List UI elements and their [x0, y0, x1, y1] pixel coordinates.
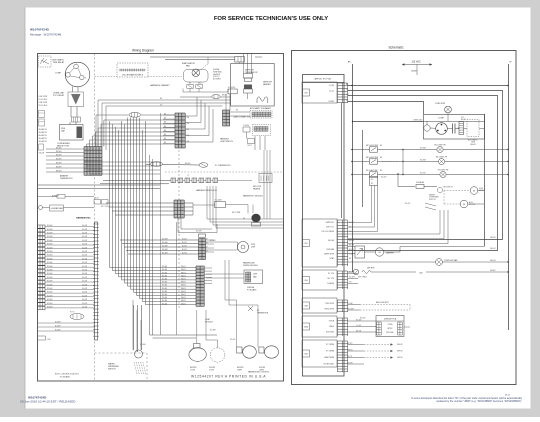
svg-text:RD-GN: RD-GN — [356, 319, 362, 321]
svg-text:DEF TERM: DEF TERM — [358, 277, 367, 279]
svg-text:2: 2 — [65, 73, 66, 75]
svg-text:RD-GR: RD-GR — [230, 339, 236, 341]
svg-text:GD-OR: GD-OR — [82, 284, 88, 286]
svg-text:RD-BU: RD-BU — [162, 297, 168, 299]
svg-text:BK-WH: BK-WH — [56, 151, 62, 153]
svg-text:PC BOARD: PC BOARD — [60, 375, 71, 378]
svg-text:BU-WH: BU-WH — [55, 330, 61, 332]
svg-text:Montage : W10767424B: Montage : W10767424B — [30, 32, 61, 36]
svg-text:RD-WH: RD-WH — [420, 159, 427, 161]
svg-text:LIGHT/SWITCH: LIGHT/SWITCH — [220, 141, 234, 143]
svg-text:J-2: J-2 — [187, 175, 189, 177]
svg-text:MC LTS: MC LTS — [328, 278, 335, 280]
svg-text:PC TERM: PC TERM — [326, 344, 335, 346]
svg-text:WH: WH — [187, 117, 190, 119]
svg-text:DEF HTR: DEF HTR — [367, 268, 375, 270]
svg-text:WH-YL: WH-YL — [181, 272, 186, 274]
svg-text:ICE CLK SENS: ICE CLK SENS — [322, 231, 335, 233]
svg-text:WH: WH — [187, 141, 190, 143]
svg-text:RD-WH: RD-WH — [140, 344, 146, 346]
svg-text:RD-WH: RD-WH — [47, 240, 52, 242]
svg-text:60HZ: 60HZ — [411, 71, 417, 73]
svg-text:RD-BU: RD-BU — [162, 279, 168, 281]
svg-text:RD-WH: RD-WH — [47, 258, 52, 260]
svg-text:EC-1(5W): EC-1(5W) — [228, 87, 236, 89]
svg-text:BK-GN: BK-GN — [356, 330, 362, 332]
svg-text:MC LIGHT SW: MC LIGHT SW — [366, 145, 378, 147]
svg-text:WH-YL: WH-YL — [181, 291, 186, 293]
svg-text:RD-GN: RD-GN — [360, 318, 366, 320]
svg-text:RD-WH: RD-WH — [420, 147, 427, 149]
svg-text:GD-OR: GD-OR — [82, 299, 88, 301]
svg-text:COND MTR: COND MTR — [435, 103, 446, 105]
svg-text:WH-YL: WH-YL — [181, 282, 186, 284]
svg-text:ELEC CONTROLS LAYOUT: ELEC CONTROLS LAYOUT — [55, 373, 80, 376]
svg-text:G-DISPATCHER: G-DISPATCHER — [51, 207, 64, 210]
svg-text:WH-BK RD: WH-BK RD — [39, 129, 48, 131]
svg-text:TRIG WTR: TRIG WTR — [325, 303, 335, 305]
svg-text:PTC RELAY: PTC RELAY — [53, 94, 65, 97]
svg-text:BK-WH: BK-WH — [56, 163, 62, 165]
svg-text:GD-OR: GD-OR — [82, 225, 88, 227]
svg-text:FAN MOTOR: FAN MOTOR — [57, 145, 69, 148]
svg-text:RD-BU: RD-BU — [162, 294, 168, 296]
svg-text:FC TERM: FC TERM — [326, 351, 334, 353]
svg-text:WH-YL: WH-YL — [181, 275, 186, 277]
svg-text:FUSE 8A: FUSE 8A — [416, 181, 424, 184]
svg-text:RELAY: RELAY — [470, 143, 476, 146]
svg-text:VTR A: VTR A — [329, 320, 335, 323]
svg-text:WH-GN: WH-GN — [490, 260, 496, 262]
svg-text:APPLIC FC PCB: APPLIC FC PCB — [314, 78, 331, 81]
svg-text:WH-GN: WH-GN — [490, 237, 496, 239]
svg-text:LT 5W: LT 5W — [190, 369, 195, 371]
svg-text:CN3: CN3 — [304, 354, 308, 356]
svg-text:COMP DISP FAN: COMP DISP FAN — [444, 259, 458, 262]
svg-text:AMB TERM: AMB TERM — [325, 356, 335, 359]
svg-text:RD-WH: RD-WH — [348, 308, 354, 310]
svg-text:DISPED MODULE: DISPED MODULE — [243, 265, 259, 267]
svg-text:THERMISTOR: THERMISTOR — [257, 312, 269, 314]
svg-text:DISPLAY PCB: DISPLAY PCB — [384, 318, 397, 321]
svg-text:BK-WH: BK-WH — [56, 167, 62, 169]
svg-text:RD-WH: RD-WH — [47, 247, 52, 249]
svg-text:DPC-1(2W): DPC-1(2W) — [101, 206, 110, 208]
svg-text:L2 (N): L2 (N) — [329, 85, 335, 87]
svg-text:GD-OR: GD-OR — [82, 281, 88, 283]
svg-text:RD-WH: RD-WH — [47, 284, 52, 286]
svg-text:PC BOARD: PC BOARD — [247, 288, 257, 291]
svg-text:HARNESS FC MODULE: HARNESS FC MODULE — [243, 195, 264, 198]
svg-text:MC LIGHT 7W: MC LIGHT 7W — [434, 144, 445, 146]
svg-text:COMP: COMP — [328, 101, 334, 103]
svg-text:BU-WH: BU-WH — [55, 326, 61, 328]
svg-text:CN7: CN7 — [304, 243, 308, 245]
svg-text:GD-OR: GD-OR — [82, 266, 88, 268]
svg-text:FZ LIGHT SW: FZ LIGHT SW — [366, 170, 378, 172]
svg-text:OVERLOAD: OVERLOAD — [413, 119, 423, 122]
svg-text:RD-WH: RD-WH — [47, 273, 52, 275]
svg-text:RD-BU: RD-BU — [162, 269, 168, 271]
svg-text:WH-GR: WH-GR — [347, 362, 353, 364]
svg-text:RD-WH: RD-WH — [349, 277, 355, 279]
svg-text:WH-BK RD: WH-BK RD — [39, 138, 48, 140]
svg-text:WH-YL: WH-YL — [181, 297, 186, 299]
svg-text:WH-OR: WH-OR — [490, 248, 496, 250]
svg-text:LINE PWR: LINE PWR — [39, 102, 48, 104]
svg-text:RD-WH: RD-WH — [47, 295, 52, 297]
svg-text:RD-BU: RD-BU — [162, 272, 168, 274]
svg-text:L1 (L): L1 (L) — [329, 91, 334, 93]
svg-text:DSP FAN: DSP FAN — [326, 248, 334, 251]
svg-text:BK(T7): BK(T7) — [347, 356, 353, 358]
svg-text:BU-WH: BU-WH — [55, 322, 61, 324]
svg-text:RD-BU: RD-BU — [162, 275, 168, 277]
svg-text:GD-GN: GD-GN — [39, 153, 45, 155]
svg-text:MC LIGHT 7W: MC LIGHT 7W — [436, 156, 447, 158]
svg-text:WH-YL: WH-YL — [181, 269, 186, 271]
svg-text:D-SENS: D-SENS — [327, 283, 335, 285]
svg-text:WH-YL: WH-YL — [181, 303, 186, 305]
svg-text:MC LIGHT SW: MC LIGHT SW — [366, 157, 378, 159]
svg-text:RD-WH: RD-WH — [162, 246, 168, 248]
svg-text:IC-3(2W): IC-3(2W) — [243, 125, 250, 127]
svg-text:BK-GN: BK-GN — [328, 240, 334, 242]
svg-text:BK: BK — [164, 138, 166, 140]
svg-text:115 VAC: 115 VAC — [411, 61, 420, 64]
svg-text:GD-OR: GD-OR — [82, 233, 88, 235]
svg-text:WH-YL: WH-YL — [181, 294, 186, 296]
svg-text:-SW: -SW — [47, 339, 51, 341]
svg-text:FC THERMISTOR: FC THERMISTOR — [215, 165, 231, 167]
svg-text:FOR SERVICE TECHNICIAN'S USE O: FOR SERVICE TECHNICIAN'S USE ONLY — [214, 16, 328, 22]
svg-text:RD-GN: RD-GN — [381, 177, 387, 179]
svg-text:WH-BK RD: WH-BK RD — [39, 132, 48, 134]
svg-text:GD-OR: GD-OR — [82, 292, 88, 294]
svg-text:MOTOR: MOTOR — [469, 204, 476, 206]
svg-text:replaced by the number "4848": replaced by the number "4848" (e.g. "W10… — [436, 400, 522, 403]
svg-text:HARNESS MC CONTROL: HARNESS MC CONTROL — [248, 371, 269, 374]
svg-text:STB GND: STB GND — [326, 332, 335, 334]
svg-text:WH-YL: WH-YL — [181, 279, 186, 281]
svg-text:WH: WH — [187, 123, 190, 125]
svg-text:GY: GY — [206, 239, 208, 241]
svg-text:WH-BK RD: WH-BK RD — [39, 141, 48, 143]
svg-text:W12544207 REV:A PRINTED IN: W12544207 REV:A PRINTED IN U.S.A — [191, 374, 266, 378]
svg-text:BK: BK — [164, 114, 166, 116]
svg-text:WH-BR: WH-BR — [490, 270, 496, 272]
svg-text:CN6: CN6 — [304, 280, 308, 282]
svg-text:3: 3 — [85, 78, 86, 80]
svg-text:BK: BK — [164, 122, 166, 124]
svg-text:GD-OR: GD-OR — [82, 295, 88, 297]
svg-text:BK-GN: BK-GN — [349, 240, 355, 242]
svg-text:DMPR HC: DMPR HC — [326, 222, 335, 224]
svg-text:BK: BK — [164, 118, 166, 120]
svg-text:RD-WH: RD-WH — [47, 236, 52, 238]
svg-text:BK: BK — [236, 110, 238, 112]
svg-text:TRIG2 WTR: TRIG2 WTR — [324, 309, 335, 311]
svg-text:RD-WH: RD-WH — [47, 299, 52, 301]
svg-text:HARNESS CABINET: HARNESS CABINET — [150, 84, 170, 87]
svg-text:HEATER: HEATER — [263, 83, 271, 86]
svg-text:BK-WH: BK-WH — [56, 159, 62, 161]
svg-text:RD-WH: RD-WH — [162, 253, 168, 255]
svg-text:BK: BK — [164, 134, 166, 136]
svg-text:DPC-1: DPC-1 — [248, 145, 253, 147]
svg-text:RD-BU: RD-BU — [162, 303, 168, 305]
svg-text:CN1: CN1 — [304, 93, 308, 95]
svg-text:RD-BU: RD-BU — [162, 285, 168, 287]
svg-text:BK: BK — [164, 142, 166, 144]
svg-text:WH-YL: WH-YL — [181, 266, 186, 268]
svg-text:FZ LT SW: FZ LT SW — [232, 212, 240, 214]
svg-text:M: M — [473, 191, 475, 193]
svg-text:HARNESS REF DOOR: HARNESS REF DOOR — [196, 189, 217, 192]
svg-text:RD-WH: RD-WH — [47, 266, 52, 268]
svg-text:BK: BK — [164, 130, 166, 132]
svg-text:FZ LIGHT 7W: FZ LIGHT 7W — [438, 169, 449, 171]
svg-text:RD-WH: RD-WH — [162, 249, 168, 251]
svg-text:MODULE: MODULE — [205, 321, 213, 323]
svg-text:WH-YL: WH-YL — [181, 288, 186, 290]
svg-text:WIDE: WIDE — [329, 326, 334, 328]
svg-text:RD-WH: RD-WH — [47, 292, 52, 294]
svg-text:Schematic: Schematic — [389, 46, 404, 50]
svg-text:BLOWER: BLOWER — [213, 79, 221, 81]
svg-text:TBL SWITCH: TBL SWITCH — [443, 187, 453, 189]
svg-text:RD-WH: RD-WH — [47, 262, 52, 264]
svg-text:PLUG BLK: PLUG BLK — [39, 99, 49, 101]
svg-text:HARNESS MC: HARNESS MC — [76, 217, 91, 220]
svg-text:AUTOMATIC ICE MAKER: AUTOMATIC ICE MAKER — [250, 107, 272, 110]
svg-text:RD-BU: RD-BU — [162, 291, 168, 293]
svg-text:WH/GR: WH/GR — [397, 351, 403, 353]
svg-text:RD-WH: RD-WH — [47, 270, 52, 272]
svg-text:GD-OR: GD-OR — [82, 270, 88, 272]
svg-text:MULLION WTR: MULLION WTR — [376, 302, 389, 304]
svg-text:CN8: CN8 — [304, 306, 308, 308]
svg-text:GD-OR: GD-OR — [82, 229, 88, 231]
svg-text:GD-OR: GD-OR — [82, 247, 88, 249]
svg-text:GD-OR: GD-OR — [82, 288, 88, 290]
svg-text:RD-WH: RD-WH — [47, 229, 52, 231]
svg-text:RD-BU: RD-BU — [162, 288, 168, 290]
svg-text:WH(T3): WH(T3) — [347, 349, 353, 351]
svg-text:STB GND: STB GND — [386, 332, 394, 334]
svg-text:BK-WH: BK-WH — [56, 148, 62, 150]
svg-text:20-Jun-2016 10:44:10 EDT / REL: 20-Jun-2016 10:44:10 EDT / RELEASED — [20, 400, 76, 404]
svg-text:WH-YL: WH-YL — [181, 285, 186, 287]
svg-text:RD-WH: RD-WH — [162, 242, 168, 244]
svg-text:WH/GR: WH/GR — [397, 357, 403, 359]
svg-text:W: W — [510, 62, 512, 64]
svg-text:VTR A: VTR A — [388, 323, 394, 326]
svg-text:GD-OR: GD-OR — [82, 255, 88, 257]
svg-text:GD-OR: GD-OR — [82, 303, 88, 305]
svg-text:BK-WH: BK-WH — [185, 163, 191, 165]
svg-text:WH/GR: WH/GR — [397, 344, 403, 346]
svg-text:RD-GR: RD-GR — [349, 272, 355, 274]
svg-text:GD-OR: GD-OR — [82, 277, 88, 279]
svg-text:WH: WH — [187, 135, 190, 137]
svg-text:BK: BK — [164, 126, 166, 128]
svg-text:M: M — [463, 204, 465, 206]
svg-text:GY: GY — [206, 243, 208, 245]
svg-text:BK(TR): BK(TR) — [347, 343, 353, 345]
svg-text:SWITCH: SWITCH — [429, 199, 436, 201]
svg-text:RD-WH: RD-WH — [196, 231, 202, 233]
svg-text:GD-OR: GD-OR — [82, 258, 88, 260]
svg-text:LINE PWR: LINE PWR — [39, 96, 48, 98]
svg-text:F1 F2: F1 F2 — [70, 312, 74, 314]
svg-text:Wiring Diagram: Wiring Diagram — [132, 49, 154, 53]
svg-text:COMP: COMP — [438, 118, 444, 120]
svg-text:ON CERTAIN MODELS: ON CERTAIN MODELS — [122, 73, 144, 76]
svg-text:WH-BK RD: WH-BK RD — [39, 135, 48, 137]
svg-text:TSCRN GND: TSCRN GND — [323, 364, 334, 366]
svg-text:RD-WH: RD-WH — [47, 288, 52, 290]
svg-text:GD-OR: GD-OR — [82, 273, 88, 275]
svg-text:BK-WH: BK-WH — [56, 155, 62, 157]
svg-text:RD-WH: RD-WH — [47, 225, 52, 227]
svg-text:WH: WH — [187, 129, 190, 131]
svg-text:GD-OR: GD-OR — [82, 262, 88, 264]
svg-text:M: M — [379, 252, 381, 254]
svg-text:GD-OR: GD-OR — [82, 251, 88, 253]
svg-text:GD-OR: GD-OR — [82, 307, 88, 309]
svg-text:COMP: COMP — [55, 73, 62, 75]
svg-text:RD-BU: RD-BU — [162, 266, 168, 268]
svg-text:1: 1 — [76, 63, 77, 65]
svg-text:TIME RELAY: TIME RELAY — [53, 61, 65, 64]
svg-text:RD-WH: RD-WH — [47, 307, 52, 309]
svg-text:TC-1(6W): TC-1(6W) — [215, 200, 222, 202]
svg-text:EVAPORATOR: EVAPORATOR — [182, 62, 195, 65]
svg-text:SWITCH: SWITCH — [108, 369, 116, 371]
svg-text:GY: GY — [206, 247, 208, 249]
svg-text:RD-WH: RD-WH — [47, 244, 52, 246]
svg-text:DIST OLY: DIST OLY — [326, 227, 335, 229]
svg-text:WH-YL: WH-YL — [181, 300, 186, 302]
svg-text:W10767424D: W10767424D — [30, 28, 50, 32]
svg-text:DMPR WTR: DMPR WTR — [324, 254, 335, 256]
svg-text:THERMISTOR: THERMISTOR — [60, 178, 73, 180]
svg-text:BK-WH: BK-WH — [56, 171, 62, 173]
svg-text:HEATER: HEATER — [253, 187, 261, 190]
svg-text:RD-WH: RD-WH — [47, 255, 52, 257]
svg-text:BK-RD: BK-RD — [222, 95, 228, 97]
svg-text:LIGHT: LIGHT — [237, 369, 242, 371]
svg-text:LT 5W: LT 5W — [209, 369, 214, 371]
svg-text:RD-GN: RD-GN — [420, 172, 426, 174]
svg-text:FAN: FAN — [186, 65, 190, 68]
svg-text:FC LTS: FC LTS — [328, 273, 335, 275]
svg-text:GD-OR: GD-OR — [82, 236, 88, 238]
svg-text:GD-OR: GD-OR — [82, 240, 88, 242]
svg-text:INTRC: INTRC — [387, 328, 393, 330]
svg-text:RD-WH: RD-WH — [210, 330, 216, 332]
svg-text:PLUG BLK: PLUG BLK — [39, 105, 49, 107]
svg-text:RD-WH: RD-WH — [47, 281, 52, 283]
svg-text:RD-WH: RD-WH — [162, 239, 168, 241]
svg-text:GY: GY — [206, 251, 208, 253]
svg-text:RD-BU: RD-BU — [162, 282, 168, 284]
svg-text:(BLK): (BLK) — [95, 198, 100, 200]
svg-text:RD-WH: RD-WH — [47, 277, 52, 279]
svg-text:(BU): (BU) — [198, 83, 202, 85]
svg-text:RD-WH: RD-WH — [47, 233, 52, 235]
svg-text:RD-OR: RD-OR — [405, 203, 411, 205]
svg-text:GD-OR: GD-OR — [82, 244, 88, 246]
svg-text:RD-BU: RD-BU — [162, 300, 168, 302]
svg-text:YL-GN: YL-GN — [356, 325, 362, 327]
svg-text:RD-WH: RD-WH — [47, 303, 52, 305]
svg-text:RD-WH: RD-WH — [47, 251, 52, 253]
